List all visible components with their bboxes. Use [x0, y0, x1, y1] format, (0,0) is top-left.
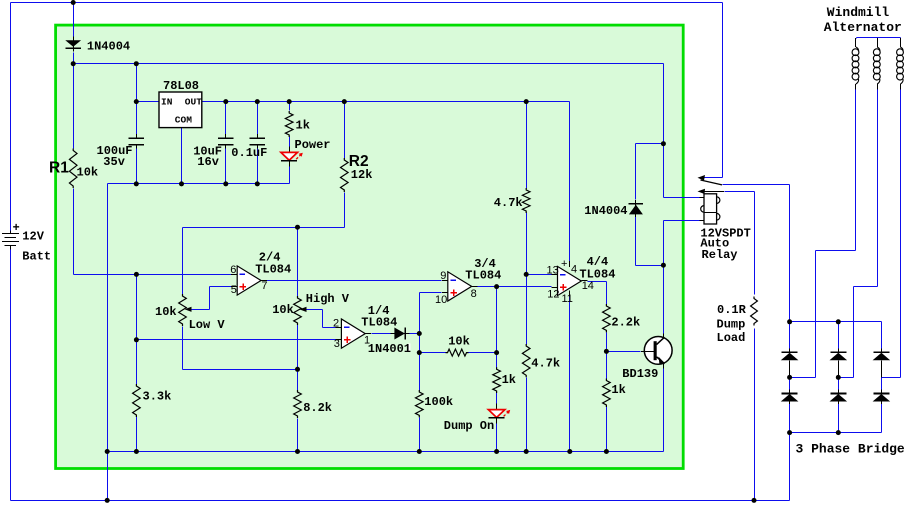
- svg-text:TL084: TL084: [465, 268, 501, 282]
- svg-text:8: 8: [471, 288, 477, 300]
- svg-text:12: 12: [547, 288, 559, 300]
- svg-text:1k: 1k: [502, 373, 516, 387]
- svg-text:1N4004: 1N4004: [584, 204, 627, 218]
- svg-text:4.7k: 4.7k: [494, 196, 523, 210]
- svg-text:Alternator: Alternator: [824, 20, 902, 35]
- svg-text:Load: Load: [717, 331, 746, 345]
- svg-text:35v: 35v: [103, 155, 125, 169]
- svg-text:Power: Power: [295, 138, 331, 152]
- svg-text:3 Phase Bridge: 3 Phase Bridge: [796, 441, 905, 456]
- svg-text:4.7k: 4.7k: [531, 356, 560, 370]
- svg-text:Windmill: Windmill: [827, 5, 890, 20]
- svg-text:0.1uF: 0.1uF: [231, 146, 267, 160]
- svg-text:Relay: Relay: [702, 248, 738, 262]
- svg-text:1: 1: [364, 334, 370, 346]
- svg-text:16v: 16v: [197, 155, 219, 169]
- svg-text:TL084: TL084: [361, 316, 397, 330]
- svg-text:1k: 1k: [296, 119, 310, 133]
- svg-text:+: +: [561, 258, 567, 270]
- svg-text:9: 9: [440, 270, 446, 282]
- svg-text:11: 11: [562, 293, 573, 305]
- svg-text:78L08: 78L08: [163, 79, 199, 93]
- svg-text:3: 3: [334, 338, 340, 350]
- svg-text:2: 2: [333, 317, 339, 329]
- svg-text:10k: 10k: [155, 305, 177, 319]
- svg-text:R1: R1: [49, 160, 69, 177]
- svg-text:Dump: Dump: [717, 317, 746, 331]
- svg-text:10: 10: [435, 294, 447, 306]
- svg-text:12V: 12V: [22, 229, 44, 243]
- svg-text:COM: COM: [175, 115, 192, 126]
- svg-text:7: 7: [261, 280, 267, 292]
- svg-text:+: +: [13, 220, 20, 234]
- svg-text:8.2k: 8.2k: [303, 401, 332, 415]
- svg-text:OUT: OUT: [185, 97, 202, 108]
- svg-text:2.2k: 2.2k: [611, 315, 640, 329]
- svg-text:3.3k: 3.3k: [143, 390, 172, 404]
- svg-text:Low V: Low V: [189, 318, 226, 332]
- svg-text:13: 13: [547, 265, 559, 277]
- svg-text:10k: 10k: [272, 303, 294, 317]
- svg-text:High V: High V: [306, 292, 350, 306]
- svg-text:0.1R: 0.1R: [717, 303, 747, 317]
- svg-text:Batt: Batt: [22, 249, 51, 263]
- svg-text:R2: R2: [349, 153, 369, 170]
- svg-text:5: 5: [231, 284, 237, 296]
- svg-text:14: 14: [582, 280, 594, 292]
- svg-text:10k: 10k: [77, 166, 99, 180]
- svg-text:BD139: BD139: [622, 367, 658, 381]
- svg-text:Dump On: Dump On: [444, 419, 494, 433]
- svg-text:6: 6: [230, 264, 236, 276]
- svg-text:1N4004: 1N4004: [87, 40, 130, 54]
- svg-text:4: 4: [571, 264, 577, 276]
- svg-text:1k: 1k: [611, 383, 625, 397]
- svg-text:TL084: TL084: [255, 262, 291, 276]
- svg-text:10k: 10k: [448, 335, 470, 349]
- svg-text:1N4001: 1N4001: [368, 342, 411, 356]
- svg-text:100k: 100k: [424, 395, 453, 409]
- svg-text:IN: IN: [161, 97, 173, 108]
